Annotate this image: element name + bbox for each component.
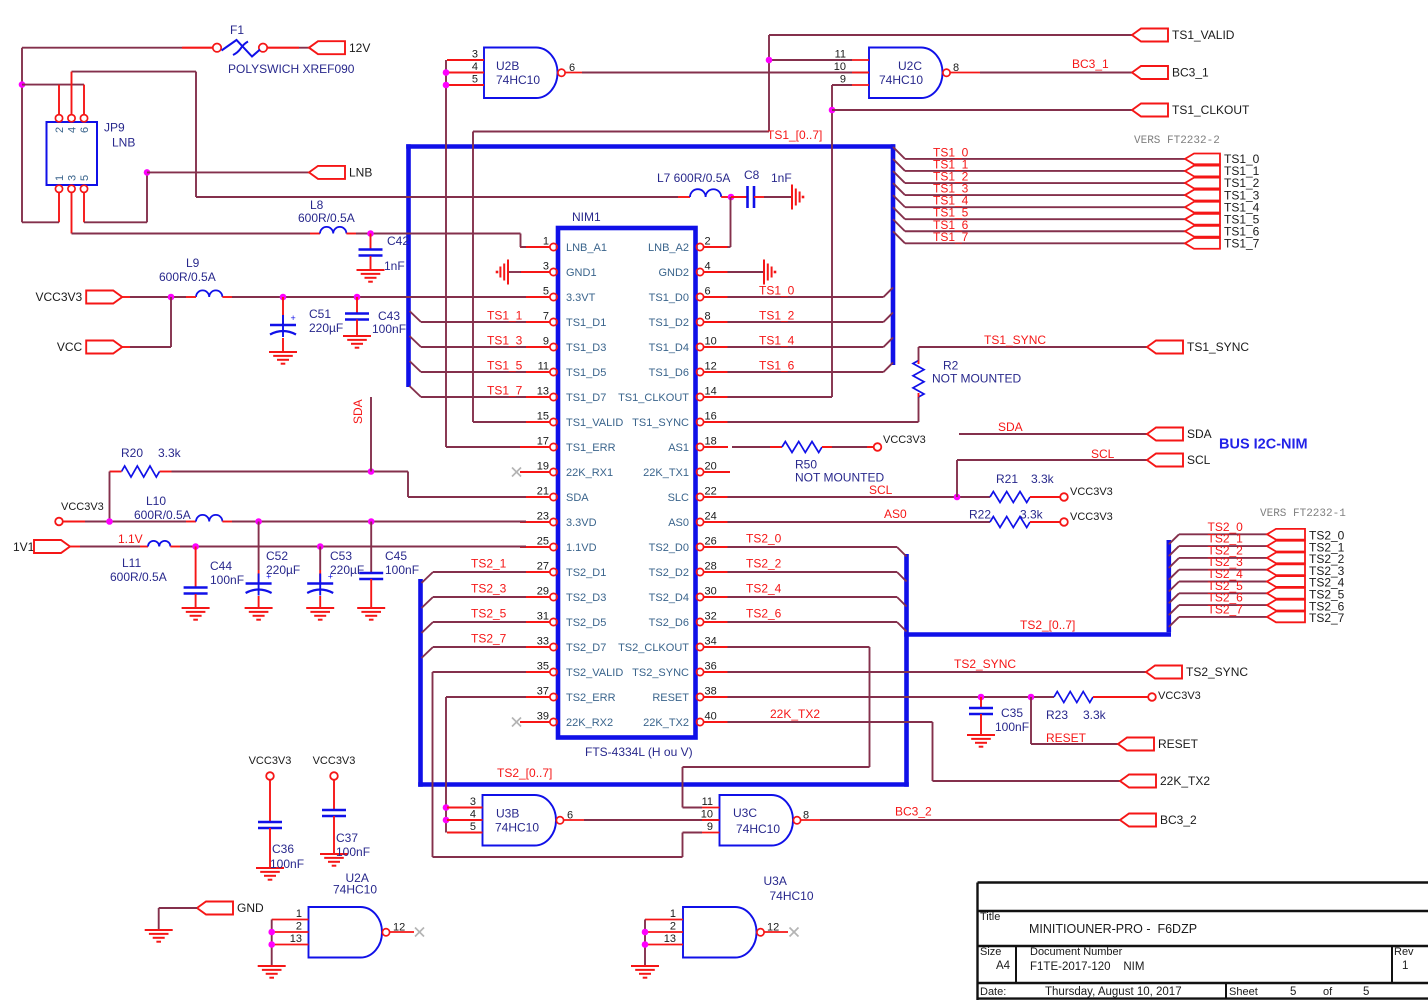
svg-text:100nF: 100nF: [385, 563, 419, 577]
svg-text:AS1: AS1: [668, 442, 689, 454]
svg-text:F1TE-2017-120 NIM: F1TE-2017-120 NIM: [1030, 961, 1144, 973]
svg-text:C44: C44: [210, 559, 232, 573]
svg-text:SCL: SCL: [1091, 447, 1115, 461]
svg-text:Sheet: Sheet: [1229, 986, 1258, 998]
svg-text:R21: R21: [996, 472, 1018, 486]
svg-text:1: 1: [54, 175, 66, 181]
svg-text:220µF: 220µF: [330, 563, 364, 577]
svg-text:R23: R23: [1046, 708, 1068, 722]
svg-text:22K_TX2: 22K_TX2: [770, 707, 820, 721]
svg-text:6: 6: [705, 286, 711, 298]
svg-text:35: 35: [537, 661, 549, 673]
svg-text:L9: L9: [186, 256, 200, 270]
svg-text:74HC10: 74HC10: [496, 73, 540, 87]
svg-text:5: 5: [470, 821, 476, 833]
svg-text:100nF: 100nF: [372, 322, 406, 336]
svg-text:3.3VD: 3.3VD: [566, 517, 597, 529]
svg-text:C37: C37: [336, 831, 358, 845]
svg-text:TS2_0: TS2_0: [746, 532, 782, 546]
svg-text:TS2_D5: TS2_D5: [566, 617, 606, 629]
svg-text:5: 5: [1290, 986, 1296, 998]
svg-text:2: 2: [54, 127, 66, 133]
svg-text:L11: L11: [122, 556, 141, 570]
svg-text:GND2: GND2: [658, 267, 689, 279]
svg-text:5: 5: [1363, 986, 1369, 998]
svg-text:40: 40: [705, 711, 717, 723]
svg-text:BC3_1: BC3_1: [1172, 66, 1209, 80]
svg-text:LNB_A1: LNB_A1: [566, 242, 607, 254]
svg-text:C53: C53: [330, 549, 352, 563]
svg-text:1: 1: [543, 236, 549, 248]
svg-text:AS0: AS0: [668, 517, 689, 529]
svg-text:220µF: 220µF: [309, 321, 343, 335]
svg-text:39: 39: [537, 711, 549, 723]
svg-text:TS2_D6: TS2_D6: [649, 617, 689, 629]
svg-text:74HC10: 74HC10: [736, 822, 780, 836]
svg-text:11: 11: [835, 49, 846, 61]
svg-text:33: 33: [537, 636, 549, 648]
svg-text:TS1_VALID: TS1_VALID: [1172, 28, 1235, 42]
svg-text:3: 3: [470, 796, 476, 808]
svg-text:SDA: SDA: [351, 399, 365, 424]
svg-text:100nF: 100nF: [995, 720, 1029, 734]
svg-text:LNB_A2: LNB_A2: [648, 242, 689, 254]
svg-text:100nF: 100nF: [270, 857, 304, 871]
svg-text:23: 23: [537, 511, 549, 523]
svg-text:F1: F1: [230, 23, 244, 37]
svg-text:100nF: 100nF: [210, 573, 244, 587]
svg-text:C52: C52: [266, 549, 288, 563]
svg-text:Thursday, August 10, 2017: Thursday, August 10, 2017: [1045, 986, 1182, 998]
svg-text:C35: C35: [1001, 706, 1023, 720]
svg-text:28: 28: [705, 561, 717, 573]
svg-text:27: 27: [537, 561, 549, 573]
svg-text:TS1_D2: TS1_D2: [649, 317, 689, 329]
svg-text:6: 6: [79, 127, 91, 133]
svg-text:21: 21: [537, 486, 549, 498]
svg-text:Title: Title: [980, 911, 1000, 923]
svg-text:TS2_D1: TS2_D1: [566, 567, 606, 579]
svg-text:TS1_D3: TS1_D3: [566, 342, 606, 354]
svg-text:BC3_2: BC3_2: [895, 805, 932, 819]
svg-text:VCC3V3: VCC3V3: [249, 755, 292, 767]
svg-text:LNB: LNB: [349, 166, 372, 180]
svg-text:12: 12: [705, 361, 717, 373]
svg-text:SCL: SCL: [1187, 453, 1211, 467]
svg-text:TS1_7: TS1_7: [933, 230, 969, 244]
svg-text:8: 8: [705, 311, 711, 323]
svg-text:C8: C8: [744, 168, 760, 182]
svg-text:1: 1: [1402, 960, 1408, 972]
svg-text:C36: C36: [272, 842, 294, 856]
svg-text:TS1_D7: TS1_D7: [566, 392, 606, 404]
svg-text:TS2_D7: TS2_D7: [566, 642, 606, 654]
svg-text:VERS FT2232-2: VERS FT2232-2: [1134, 135, 1220, 147]
svg-text:NOT MOUNTED: NOT MOUNTED: [932, 372, 1021, 386]
svg-text:VCC3V3: VCC3V3: [36, 290, 83, 304]
svg-text:MINITIOUNER-PRO - F6DZP: MINITIOUNER-PRO - F6DZP: [1029, 922, 1197, 936]
svg-text:10: 10: [705, 336, 717, 348]
svg-text:TS2_5: TS2_5: [471, 607, 507, 621]
svg-text:JP9: JP9: [104, 121, 125, 135]
svg-text:13: 13: [290, 933, 302, 945]
svg-text:3: 3: [543, 261, 549, 273]
svg-text:TS2_7: TS2_7: [471, 632, 507, 646]
svg-text:9: 9: [543, 336, 549, 348]
svg-text:13: 13: [664, 933, 676, 945]
svg-text:U2B: U2B: [496, 59, 519, 73]
svg-text:GND: GND: [237, 901, 264, 915]
svg-text:20: 20: [705, 461, 717, 473]
svg-text:TS1_CLKOUT: TS1_CLKOUT: [1172, 103, 1250, 117]
svg-text:TS1_ERR: TS1_ERR: [566, 442, 616, 454]
svg-text:3.3VT: 3.3VT: [566, 292, 596, 304]
svg-text:TS2_3: TS2_3: [471, 582, 507, 596]
svg-text:TS2_SYNC: TS2_SYNC: [632, 667, 689, 679]
svg-text:11: 11: [702, 796, 713, 808]
svg-text:SDA: SDA: [566, 492, 589, 504]
svg-text:4: 4: [472, 61, 478, 73]
svg-text:RESET: RESET: [1046, 731, 1087, 745]
svg-text:TS1_SYNC: TS1_SYNC: [1187, 340, 1249, 354]
svg-text:22K_TX1: 22K_TX1: [643, 467, 689, 479]
svg-text:C51: C51: [309, 307, 331, 321]
svg-text:VERS FT2232-1: VERS FT2232-1: [1260, 508, 1346, 520]
svg-text:TS2_7: TS2_7: [1208, 602, 1244, 616]
svg-text:TS2_VALID: TS2_VALID: [566, 667, 623, 679]
svg-text:TS1_D6: TS1_D6: [649, 367, 689, 379]
svg-text:TS1_[0..7]: TS1_[0..7]: [767, 128, 822, 142]
svg-text:TS1_D0: TS1_D0: [649, 292, 689, 304]
svg-text:13: 13: [537, 386, 549, 398]
svg-text:of: of: [1323, 986, 1333, 998]
svg-text:L10: L10: [146, 494, 166, 508]
svg-text:9: 9: [840, 74, 846, 86]
svg-text:5: 5: [472, 74, 478, 86]
svg-text:14: 14: [705, 386, 717, 398]
svg-text:1.1V: 1.1V: [118, 532, 143, 546]
svg-text:17: 17: [537, 436, 549, 448]
svg-text:22K_RX1: 22K_RX1: [566, 467, 613, 479]
svg-text:TS2_6: TS2_6: [746, 607, 782, 621]
svg-text:100nF: 100nF: [336, 845, 370, 859]
svg-text:C42: C42: [387, 234, 409, 248]
svg-text:1V1: 1V1: [13, 540, 35, 554]
svg-text:25: 25: [537, 536, 549, 548]
svg-text:600R/0.5A: 600R/0.5A: [110, 570, 167, 584]
svg-text:10: 10: [834, 61, 846, 73]
svg-text:4: 4: [470, 809, 476, 821]
svg-text:5: 5: [79, 175, 91, 181]
svg-text:3.3k: 3.3k: [1031, 472, 1055, 486]
svg-text:L8: L8: [310, 198, 324, 212]
svg-text:TS2_SYNC: TS2_SYNC: [1186, 665, 1248, 679]
svg-text:TS1_7: TS1_7: [1224, 237, 1260, 251]
svg-text:TS2_ERR: TS2_ERR: [566, 692, 616, 704]
svg-text:9: 9: [707, 821, 713, 833]
svg-text:FTS-4334L (H ou V): FTS-4334L (H ou V): [585, 745, 693, 759]
svg-text:BUS I2C-NIM: BUS I2C-NIM: [1219, 437, 1308, 453]
svg-text:Size: Size: [980, 946, 1001, 958]
svg-text:TS1_D5: TS1_D5: [566, 367, 606, 379]
svg-text:RESET: RESET: [652, 692, 689, 704]
svg-text:TS1_D1: TS1_D1: [566, 317, 606, 329]
svg-text:TS2_2: TS2_2: [746, 557, 782, 571]
svg-text:3.3k: 3.3k: [158, 446, 182, 460]
svg-text:TS1_3: TS1_3: [487, 334, 523, 348]
svg-text:R50: R50: [795, 458, 817, 472]
svg-text:12V: 12V: [349, 41, 370, 55]
svg-text:74HC10: 74HC10: [770, 889, 814, 903]
svg-text:TS2_D2: TS2_D2: [649, 567, 689, 579]
svg-text:TS2_1: TS2_1: [471, 557, 507, 571]
svg-text:U3B: U3B: [496, 807, 519, 821]
svg-text:BC3_2: BC3_2: [1160, 813, 1197, 827]
svg-text:POLYSWICH XREF090: POLYSWICH XREF090: [228, 62, 355, 76]
svg-text:VCC3V3: VCC3V3: [1158, 690, 1201, 702]
svg-text:NIM1: NIM1: [572, 210, 601, 224]
svg-text:74HC10: 74HC10: [495, 821, 539, 835]
svg-text:A4: A4: [996, 960, 1011, 972]
svg-text:RESET: RESET: [1158, 737, 1199, 751]
svg-text:R2: R2: [943, 359, 959, 373]
svg-text:TS1_6: TS1_6: [759, 359, 795, 373]
svg-text:TS1_VALID: TS1_VALID: [566, 417, 623, 429]
svg-text:TS1_7: TS1_7: [487, 384, 523, 398]
svg-text:AS0: AS0: [884, 507, 907, 521]
svg-text:VCC3V3: VCC3V3: [1070, 511, 1113, 523]
svg-text:7: 7: [543, 311, 549, 323]
svg-text:C43: C43: [378, 309, 400, 323]
svg-text:GND1: GND1: [566, 267, 597, 279]
svg-text:24: 24: [705, 511, 717, 523]
svg-text:2: 2: [705, 236, 711, 248]
svg-text:11: 11: [538, 361, 549, 373]
svg-text:600R/0.5A: 600R/0.5A: [134, 508, 191, 522]
svg-text:LNB: LNB: [112, 136, 135, 150]
svg-text:19: 19: [537, 461, 549, 473]
svg-text:TS1_2: TS1_2: [759, 309, 795, 323]
svg-text:2: 2: [670, 921, 676, 933]
svg-text:U3C: U3C: [733, 806, 757, 820]
svg-text:TS1_CLKOUT: TS1_CLKOUT: [618, 392, 689, 404]
svg-text:600R/0.5A: 600R/0.5A: [298, 211, 355, 225]
svg-text:600R/0.5A: 600R/0.5A: [159, 270, 216, 284]
svg-text:3: 3: [67, 175, 79, 181]
svg-text:SLC: SLC: [668, 492, 689, 504]
svg-text:4: 4: [705, 261, 711, 273]
svg-text:U3A: U3A: [764, 874, 787, 888]
svg-text:TS1_1: TS1_1: [487, 309, 523, 323]
svg-text:TS2_4: TS2_4: [746, 582, 782, 596]
svg-text:L7 600R/0.5A: L7 600R/0.5A: [657, 171, 730, 185]
svg-text:R22: R22: [969, 508, 991, 522]
svg-text:TS2_CLKOUT: TS2_CLKOUT: [618, 642, 689, 654]
svg-text:37: 37: [537, 686, 549, 698]
svg-text:3: 3: [472, 49, 478, 61]
svg-text:VCC3V3: VCC3V3: [1070, 486, 1113, 498]
svg-text:220µF: 220µF: [266, 563, 300, 577]
svg-text:36: 36: [705, 661, 717, 673]
svg-text:TS2_[0..7]: TS2_[0..7]: [497, 766, 552, 780]
svg-text:VCC3V3: VCC3V3: [883, 434, 926, 446]
svg-text:34: 34: [705, 636, 717, 648]
svg-text:VCC: VCC: [57, 340, 83, 354]
svg-text:3.3k: 3.3k: [1083, 708, 1107, 722]
svg-text:R20: R20: [121, 446, 143, 460]
svg-text:TS2_[0..7]: TS2_[0..7]: [1020, 618, 1075, 632]
svg-text:1nF: 1nF: [384, 259, 405, 273]
svg-text:10: 10: [701, 809, 713, 821]
svg-text:BC3_1: BC3_1: [1072, 57, 1109, 71]
svg-text:15: 15: [537, 411, 549, 423]
svg-text:C45: C45: [385, 549, 407, 563]
svg-text:26: 26: [705, 536, 717, 548]
svg-text:29: 29: [537, 586, 549, 598]
svg-text:TS1_SYNC: TS1_SYNC: [632, 417, 689, 429]
svg-text:22K_TX2: 22K_TX2: [643, 717, 689, 729]
svg-text:TS1_5: TS1_5: [487, 359, 523, 373]
svg-text:SDA: SDA: [1187, 427, 1212, 441]
svg-text:SCL: SCL: [869, 483, 893, 497]
svg-text:VCC3V3: VCC3V3: [313, 755, 356, 767]
svg-text:5: 5: [543, 286, 549, 298]
svg-text:32: 32: [705, 611, 717, 623]
svg-text:TS2_D4: TS2_D4: [649, 592, 689, 604]
svg-text:22: 22: [705, 486, 717, 498]
svg-text:TS1_D4: TS1_D4: [649, 342, 689, 354]
svg-text:22K_RX2: 22K_RX2: [566, 717, 613, 729]
svg-text:1: 1: [296, 908, 302, 920]
svg-text:TS2_D3: TS2_D3: [566, 592, 606, 604]
svg-text:30: 30: [705, 586, 717, 598]
svg-text:3.3k: 3.3k: [1020, 508, 1044, 522]
svg-text:4: 4: [67, 127, 79, 133]
svg-text:22K_TX2: 22K_TX2: [1160, 774, 1210, 788]
svg-text:1.1VD: 1.1VD: [566, 542, 597, 554]
svg-text:TS2_D0: TS2_D0: [649, 542, 689, 554]
svg-text:31: 31: [537, 611, 549, 623]
svg-text:Rev: Rev: [1394, 946, 1414, 958]
svg-text:16: 16: [705, 411, 717, 423]
svg-text:38: 38: [705, 686, 717, 698]
svg-text:Date:: Date:: [980, 986, 1006, 998]
svg-text:TS2_7: TS2_7: [1309, 611, 1345, 625]
svg-text:2: 2: [296, 921, 302, 933]
svg-text:+: +: [291, 313, 296, 323]
svg-text:74HC10: 74HC10: [333, 883, 377, 897]
svg-text:TS1_4: TS1_4: [759, 334, 795, 348]
svg-text:TS2_SYNC: TS2_SYNC: [954, 657, 1016, 671]
svg-text:TS1_0: TS1_0: [759, 284, 795, 298]
svg-text:Document Number: Document Number: [1030, 946, 1123, 958]
svg-text:U2C: U2C: [898, 59, 922, 73]
svg-text:1: 1: [670, 908, 676, 920]
svg-text:VCC3V3: VCC3V3: [61, 501, 104, 513]
svg-text:18: 18: [705, 436, 717, 448]
svg-text:1nF: 1nF: [771, 171, 792, 185]
svg-text:74HC10: 74HC10: [879, 73, 923, 87]
svg-text:SDA: SDA: [998, 420, 1023, 434]
svg-text:TS1_SYNC: TS1_SYNC: [984, 333, 1046, 347]
